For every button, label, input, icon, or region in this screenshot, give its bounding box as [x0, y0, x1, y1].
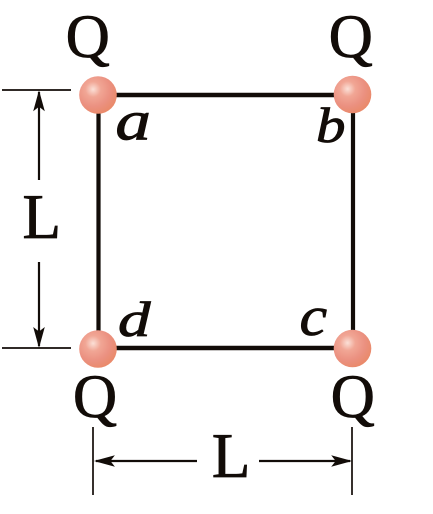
charge ball a (top-left): [79, 76, 117, 114]
wire square side ad (left edge): [96, 95, 100, 348]
vertical dimension line lower segment: [38, 262, 40, 346]
svg-text:a: a: [115, 90, 151, 152]
svg-text:b: b: [316, 97, 346, 153]
arrowhead down: [33, 327, 45, 348]
dimension extension line bottom-left vertical: [92, 427, 94, 495]
arrowhead right: [331, 455, 352, 467]
svg-text:Q: Q: [329, 4, 373, 71]
vertical dimension line upper segment: [38, 92, 40, 180]
arrowhead up: [33, 90, 45, 111]
arrowhead left: [94, 455, 115, 467]
svg-text:Q: Q: [73, 364, 117, 431]
dimension extension line bottom-left: [2, 347, 71, 349]
svg-text:L: L: [212, 421, 250, 491]
dimension extension line bottom-right vertical: [351, 427, 353, 495]
svg-text:L: L: [23, 182, 61, 252]
charge ball d (bottom-left): [79, 330, 117, 368]
horizontal dimension line left segment: [96, 460, 197, 462]
svg-text:c: c: [300, 285, 328, 347]
svg-text:d: d: [118, 291, 152, 347]
svg-text:Q: Q: [331, 364, 375, 431]
charge ball b (top-right): [334, 76, 372, 114]
charge ball c (bottom-right): [334, 330, 372, 368]
dimension extension line top-left: [2, 89, 71, 91]
horizontal dimension line right segment: [259, 460, 350, 462]
wire square side ab (top edge): [99, 93, 354, 98]
wire square side bc (right edge): [351, 95, 355, 348]
wire square side dc (bottom edge): [99, 346, 354, 351]
svg-text:Q: Q: [66, 4, 110, 71]
